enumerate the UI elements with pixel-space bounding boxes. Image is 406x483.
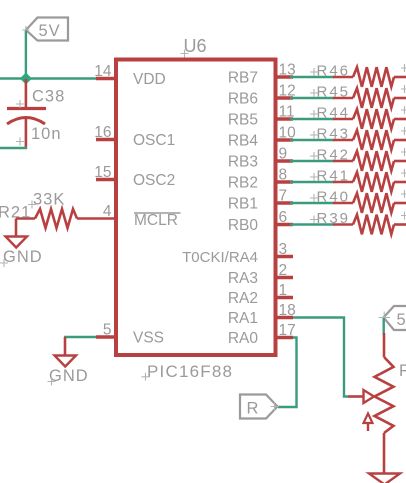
svg-text:4: 4	[103, 203, 112, 220]
pin RA3 2	[276, 276, 294, 280]
pin RB4 10	[276, 138, 294, 142]
wire RA1 net	[293, 318, 348, 397]
svg-text:RA1: RA1	[228, 310, 258, 327]
wire RB7 net	[290, 76, 334, 78]
supply flag 5V (bottom-right)	[379, 306, 406, 330]
svg-text:5: 5	[103, 322, 112, 339]
pin RB0 6	[276, 223, 294, 227]
svg-text:8: 8	[279, 167, 288, 184]
pin RB5 11	[276, 117, 294, 121]
cross right edge row 6	[401, 212, 406, 220]
flag R (net label)	[240, 395, 279, 419]
svg-text:VSS: VSS	[133, 330, 164, 347]
svg-text:33K: 33K	[33, 191, 65, 209]
cross GND origin	[0, 259, 8, 267]
wire VSS net	[64, 336, 97, 338]
ground GND (VSS)	[55, 337, 77, 367]
svg-text:RB0: RB0	[228, 217, 259, 234]
svg-text:R39: R39	[317, 210, 351, 227]
cross R41 origin	[310, 173, 318, 181]
svg-text:R46: R46	[317, 63, 351, 80]
svg-text:RB2: RB2	[228, 175, 258, 192]
wire 5V to pot	[383, 318, 385, 335]
resistor R39	[333, 215, 406, 235]
adjust arrow	[364, 414, 373, 432]
svg-text:2: 2	[279, 262, 288, 279]
junction	[20, 73, 32, 85]
wiper arrow	[348, 390, 374, 403]
svg-text:3: 3	[279, 241, 288, 258]
cross U6 origin	[181, 50, 189, 58]
pin OSC2 15	[96, 178, 116, 182]
wire RB5 net	[290, 118, 334, 120]
svg-text:7: 7	[279, 188, 288, 205]
ground GND (R21)	[6, 219, 28, 248]
cross 10n origin	[16, 138, 24, 146]
svg-text:RB7: RB7	[228, 70, 258, 87]
svg-text:R40: R40	[317, 189, 351, 206]
svg-text:OSC1: OSC1	[133, 132, 175, 149]
svg-text:5: 5	[397, 311, 406, 329]
svg-text:GND: GND	[49, 367, 89, 385]
pin T0CKI/RA4 3	[276, 255, 294, 259]
cross PIC16F88 origin	[142, 373, 150, 381]
pin VDD 14	[96, 77, 116, 81]
wire RB6 net	[290, 97, 334, 99]
wire RB4 net	[290, 139, 334, 141]
pin VSS 5	[96, 335, 116, 339]
resistor R21 33K	[16, 209, 116, 228]
svg-text:9: 9	[279, 146, 288, 163]
svg-text:R45: R45	[317, 84, 351, 101]
wire RB0 net	[290, 223, 334, 225]
resistor R40	[333, 193, 406, 213]
wire RA0 net	[278, 338, 297, 408]
pin RA0 17	[276, 336, 294, 340]
cross R45 origin	[310, 89, 318, 97]
svg-text:R43: R43	[317, 126, 351, 143]
svg-text:16: 16	[94, 124, 111, 141]
pin RB1 7	[276, 201, 294, 205]
wire cap to left edge	[0, 147, 27, 149]
svg-text:RB6: RB6	[228, 91, 258, 108]
cross right edge row 10	[401, 127, 406, 135]
cross R44 origin	[310, 110, 318, 118]
pin RB3 9	[276, 159, 294, 163]
supply flag 5V (top-left)	[22, 18, 68, 41]
svg-text:RB1: RB1	[228, 196, 258, 213]
cross right edge row 8	[401, 169, 406, 177]
svg-text:1: 1	[279, 282, 288, 299]
svg-text:MCLR: MCLR	[134, 212, 178, 229]
pin RB6 12	[276, 96, 294, 100]
pin OSC1 16	[96, 138, 116, 142]
svg-text:PIC16F88: PIC16F88	[147, 362, 233, 381]
svg-text:R: R	[247, 400, 259, 418]
cross R46 origin	[310, 68, 318, 76]
wire VDD net horizontal	[0, 77, 97, 79]
cross right edge row 11	[401, 106, 406, 114]
wire RB1 net	[290, 202, 334, 204]
cross R43 origin	[310, 131, 318, 139]
cross right edge row 12	[401, 85, 406, 93]
cross right edge row 13	[401, 64, 406, 72]
svg-text:RA2: RA2	[228, 290, 258, 307]
capacitor C38	[7, 79, 46, 149]
resistor R41	[333, 172, 406, 192]
svg-text:GND: GND	[3, 248, 43, 266]
svg-text:15: 15	[94, 164, 111, 181]
svg-text:RB4: RB4	[228, 133, 259, 150]
pin RB2 8	[276, 180, 294, 184]
resistor R42	[333, 151, 406, 171]
wire 5V stub	[25, 31, 27, 80]
svg-text:R2: R2	[399, 362, 406, 380]
cross R40 origin	[310, 194, 318, 202]
svg-text:OSC2: OSC2	[133, 172, 175, 189]
cross R39 origin	[310, 216, 318, 224]
cross R42 origin	[310, 152, 318, 160]
resistor R45	[333, 88, 406, 108]
svg-text:RB5: RB5	[228, 112, 258, 129]
svg-text:VDD: VDD	[133, 71, 166, 88]
cross right edge row 9	[401, 148, 406, 156]
svg-text:C38: C38	[32, 88, 65, 106]
svg-text:RA3: RA3	[228, 270, 258, 287]
ground GND (pot)	[369, 474, 400, 483]
svg-text:10n: 10n	[31, 125, 62, 143]
svg-text:R42: R42	[317, 147, 351, 164]
svg-text:5V: 5V	[39, 22, 61, 40]
svg-text:6: 6	[279, 209, 288, 226]
pin RB7 13	[276, 75, 294, 79]
wire RB3 net	[290, 160, 334, 162]
wire RB2 net	[290, 181, 334, 183]
resistor R46	[333, 67, 406, 87]
trimmer R22	[375, 333, 394, 474]
svg-text:T0CKI/RA4: T0CKI/RA4	[182, 249, 258, 266]
svg-text:R41: R41	[317, 168, 351, 185]
pin RA1 18	[276, 316, 294, 320]
resistor R43	[333, 130, 406, 150]
pin RA2 1	[276, 296, 294, 300]
cross R21 origin	[28, 201, 36, 209]
svg-text:R44: R44	[317, 105, 351, 122]
svg-text:14: 14	[94, 63, 112, 80]
op IC body U6	[116, 60, 276, 356]
cross right edge row 7	[401, 190, 406, 198]
svg-text:RA0: RA0	[228, 330, 259, 347]
resistor R44	[333, 109, 406, 129]
cross C38 origin	[16, 100, 24, 108]
cross GND origin	[48, 378, 56, 386]
svg-text:RB3: RB3	[228, 154, 258, 171]
